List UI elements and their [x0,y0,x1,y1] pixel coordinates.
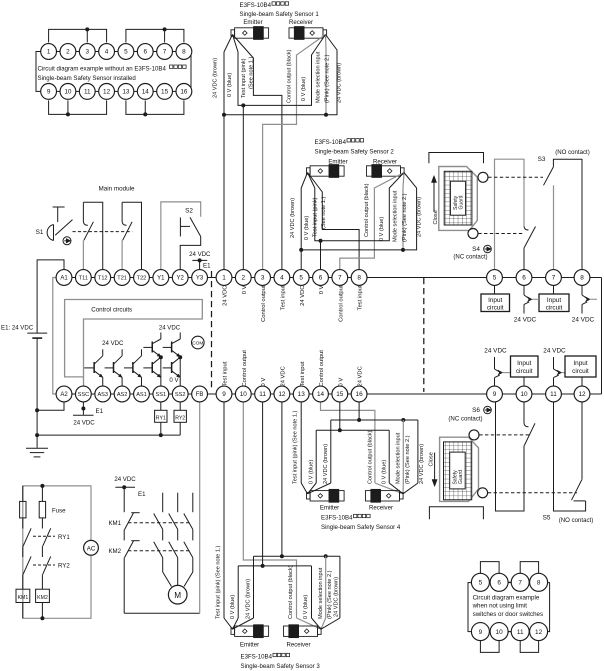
svg-text:A2: A2 [60,392,68,398]
terminal 7 (sensor block top) [332,270,348,286]
svg-text:(NC contact): (NC contact) [453,254,487,261]
terminal 5 (sensor block top) [293,270,309,286]
svg-text:Test input (pink) (See note 1.: Test input (pink) (See note 1.) [216,545,222,619]
svg-text:Control circuits: Control circuits [91,307,132,314]
svg-text:(Pink) (See note 2.): (Pink) (See note 2.) [402,193,408,242]
svg-text:KM2: KM2 [108,548,121,555]
switch S1: emergency stop button [36,207,73,241]
svg-text:10: 10 [240,391,248,398]
svg-text:circuit: circuit [487,305,504,312]
safety guard 2 hatched frame [444,442,472,500]
terminal 12 (sensor block bottom) [274,386,290,402]
svg-text:24 VDC (brown): 24 VDC (brown) [213,58,219,98]
wire: sensor1 emitter test-input(pink) to terminal 4 [233,35,282,270]
svg-text:Control output (black): Control output (black) [288,565,294,619]
svg-text:12: 12 [278,391,286,398]
svg-text:5: 5 [299,275,303,282]
svg-text:E1: E1 [138,491,146,498]
sensor S3b: single-beam safety sensor 3 receiver [284,625,322,638]
label: sensor1 Emitter [243,19,262,26]
svg-text:Single-beam Safety Sensor 2: Single-beam Safety Sensor 2 [315,149,395,156]
svg-text:Mode selection input: Mode selection input [393,190,399,242]
wire: sensor1 receiver 0V(blue) joins terminal 2 line [241,35,325,270]
terminal 1 (sensor block top) [216,270,232,286]
contact KM1 (monitor, NC) [124,487,139,529]
svg-text:8: 8 [580,275,584,282]
svg-text:Control output (black): Control output (black) [287,49,293,103]
svg-text:Mode selection input: Mode selection input [318,567,324,619]
arrow: guard1 Close direction [431,176,439,225]
svg-text:KM2: KM2 [37,595,48,601]
terminal 11 (example2 box) [511,623,529,641]
terminal T11 [75,270,91,286]
box: circuit diagram example without sensor installed [36,52,191,92]
svg-text:(Pink) (See note 2.): (Pink) (See note 2.) [405,435,411,484]
wire: sensor1 emitter 0V(blue) to terminal 2 [233,35,244,106]
svg-text:Test input: Test input [300,361,306,386]
wire: example box jumper 1-4 with tap from 3 [49,27,107,42]
svg-text:2: 2 [66,49,70,56]
terminal AS3 [95,386,111,402]
svg-text:12: 12 [535,629,543,636]
contactor power contacts phase U [154,493,172,587]
wire: sensor2 emitter test-input(pink) to terminal 8 [308,173,360,270]
svg-text:AS1: AS1 [136,392,147,398]
wire: KM1 dashed gang line [128,522,190,524]
svg-text:0 V (blue): 0 V (blue) [379,217,385,241]
svg-text:24 VDC (brown): 24 VDC (brown) [290,198,296,238]
contact: S1 NC contact T21-T22 [122,202,141,269]
svg-text:AS2: AS2 [117,392,128,398]
contact: S1 NC contact T11-T12 [83,202,102,269]
svg-text:Emitter: Emitter [240,642,259,649]
wire: sensor2 emitter 24VDC(brown) to terminal 5 [299,173,307,270]
label: KM1 [108,520,121,527]
svg-text:AC: AC [87,545,96,552]
terminal 5 (example box) [118,44,134,60]
svg-text:T22: T22 [137,276,147,282]
terminal Y2 [172,270,188,286]
sensor S4b: single-beam safety sensor 4 receiver [366,489,404,502]
wire: gray link A1 to A2 [53,278,58,395]
terminal 8 (example2 box) [530,573,548,591]
svg-text:1: 1 [47,49,51,56]
label: sensor4 wire labels [293,410,426,484]
svg-text:0 V: 0 V [338,378,344,387]
svg-text:6: 6 [497,580,501,587]
svg-text:0 V: 0 V [319,285,325,294]
label: RY2 contact row [33,563,70,570]
svg-text:13: 13 [122,89,130,96]
terminal 16 (example box) [176,84,192,100]
safety guard 1 door outline [439,167,478,231]
svg-text:SS2: SS2 [175,392,186,398]
power tap: E1 24VDC at SSC [73,402,104,427]
wire: sensor2 receiver control-output(black) to terminal 7 [340,173,404,270]
svg-text:24 VDC: 24 VDC [73,420,95,427]
svg-text:Test input (pink): Test input (pink) [313,197,319,237]
svg-text:8: 8 [537,580,541,587]
node: coil circuit bottom junction [40,616,44,620]
svg-text:10: 10 [520,391,528,398]
contact S3: NO door switch contact [544,167,554,270]
label: RY1 contact row [33,534,70,541]
label: 24 VDC above safety output transistors SS [159,325,181,332]
label: terminal 9-16 function labels (rotated) [223,350,364,387]
svg-text:S2: S2 [185,208,193,215]
wire: sensor2 receiver 0V(blue) joins terminal 6 line [319,173,405,270]
svg-text:Receiver: Receiver [286,642,310,649]
svg-text:Single-beam Safety Sensor 3: Single-beam Safety Sensor 3 [241,663,321,670]
svg-text:Fuse: Fuse [52,507,66,514]
terminal SS1 [153,386,169,402]
label: sensor3 Emitter [240,642,259,649]
svg-text:24 VDC (brown): 24 VDC (brown) [417,197,423,237]
svg-text:Main module: Main module [98,186,135,193]
node: coil circuit top junction [40,484,44,488]
svg-text:0 V (blue): 0 V (blue) [301,77,307,101]
svg-text:Guard: Guard [458,470,464,484]
module boundary dashed line (left) [211,271,213,391]
svg-text:0 V (blue): 0 V (blue) [304,216,310,240]
wire: terminal 8 feed loop to S3 [553,159,582,269]
svg-text:RY1: RY1 [58,534,70,541]
terminal 15 (example box) [157,84,173,100]
label: sensor2 Receiver [373,159,397,166]
bracket below safety guard 2 [429,507,483,520]
svg-text:0 V: 0 V [261,378,267,387]
transistor: auxiliary output AS3 [84,349,103,386]
svg-text:5: 5 [479,580,483,587]
label: sensor1 Receiver [289,19,313,26]
svg-text:0 V (blue): 0 V (blue) [227,73,233,97]
svg-text:24 VDC (brown): 24 VDC (brown) [333,577,339,617]
svg-text:(NO contact): (NO contact) [559,517,594,524]
terminal 13 (example box) [118,84,134,100]
svg-text:A1: A1 [60,276,68,282]
svg-text:4: 4 [280,275,284,282]
terminal 6 (example box) [137,44,153,60]
svg-text:Test input: Test input [358,285,364,310]
wire: example box jumper 5-8 with tap from 7 [126,27,184,42]
wire: dashed mechanical link guard1 to S3 [488,176,543,178]
symbol: 24VDC source arrow at terminal 6 [514,285,539,323]
terminal SS2 [172,386,188,402]
svg-text:9: 9 [479,629,483,636]
sensor S2a: single-beam safety sensor 2 emitter [307,165,345,178]
svg-text:Emitter: Emitter [243,19,262,26]
svg-text:E3FS-10B4: E3FS-10B4 [321,515,353,522]
roller: guard1 upper interlock [478,172,488,182]
sensor S1b: single-beam safety sensor 1 receiver [289,27,327,40]
terminal 12 (example box) [99,84,115,100]
svg-text:11: 11 [84,89,91,96]
terminal 10 (input block bottom) [516,386,532,402]
svg-text:S6: S6 [472,407,480,414]
svg-text:(See note 1.): (See note 1.) [249,57,255,89]
terminal 13 (sensor block bottom) [293,386,309,402]
svg-text:13: 13 [298,391,306,398]
terminal 1 (example box) [41,44,57,60]
svg-text:E1: E1 [203,263,211,270]
wire: terminal 5 feed loop to S4 [495,159,525,269]
wire: sensor2 receiver mode-selection(pink) taps 24VDC bus [401,173,405,252]
svg-text:S5: S5 [543,515,551,522]
svg-text:24 VDC: 24 VDC [484,348,507,355]
source: AC supply [84,540,99,555]
svg-text:Single-beam Safety Sensor 1: Single-beam Safety Sensor 1 [240,11,320,18]
svg-text:S4: S4 [472,246,480,253]
svg-text:Test input: Test input [223,361,229,386]
svg-text:15: 15 [336,391,344,398]
svg-text:RY1: RY1 [156,415,166,421]
terminal 7 (example2 box) [511,573,529,591]
svg-text:1: 1 [222,275,226,282]
block: input circuit above terminal 12 [565,356,596,386]
svg-text:Input: Input [517,360,531,367]
label: 0 V near SS2 [169,377,179,384]
svg-text:E1: 24 VDC: E1: 24 VDC [1,324,34,331]
svg-text:7: 7 [518,580,522,587]
label: KM2 [108,548,121,555]
terminal 9 (example box) [41,84,57,100]
svg-text:16: 16 [356,391,364,398]
svg-text:Control output (black): Control output (black) [364,183,370,237]
wire: sensor3 test-input(pink) from terminal 9 [224,402,233,629]
wire: feedback loop FB to contactor circuit [124,402,200,613]
terminal AS2 [114,386,130,402]
relay coil RY2 [174,402,186,435]
terminal T21 [114,270,130,286]
terminal 8 (example box) [176,44,192,60]
terminal 9 (input block bottom) [487,386,503,402]
label: Fuse [52,507,66,514]
label: E3FS-10B4 Single-beam Safety Sensor 2 title [315,139,395,156]
wire: sensor3 control-output(black) from terminal 10 [243,402,321,629]
battery E1: 24 VDC supply [1,260,64,410]
contact KM2 (monitor, NC) [124,530,139,614]
svg-text:24 VDC (brown): 24 VDC (brown) [337,63,343,103]
svg-text:9: 9 [222,391,226,398]
svg-text:circuit: circuit [572,368,589,375]
power tap: 24 VDC E1 feed for contactor monitor [114,476,146,498]
terminal T12 [95,270,111,286]
svg-text:4: 4 [105,49,109,56]
svg-text:8: 8 [357,275,361,282]
svg-text:Guard: Guard [459,195,465,209]
svg-text:Input: Input [547,297,561,304]
terminal 10 (sensor block bottom) [235,386,251,402]
terminal A2 [56,386,72,402]
contact S6: NC door switch contact (lower) [496,402,536,511]
switch S2: test pushbutton between Y1 and Y2 [161,202,201,270]
svg-text:3: 3 [261,275,265,282]
wire: upper terminal row link bus [57,277,602,279]
terminal 11 (input block bottom) [546,386,562,402]
terminal Y3 [192,270,208,286]
svg-text:(NO contact): (NO contact) [555,149,590,156]
svg-text:24 VDC: 24 VDC [189,251,211,258]
wire: example box jumper 9-12 with tap from 10 [49,100,107,116]
svg-text:24 VDC: 24 VDC [514,316,537,323]
svg-text:Y3: Y3 [196,276,204,282]
svg-text:24 VDC: 24 VDC [358,366,364,386]
svg-text:14: 14 [142,89,150,96]
symbol: 24VDC source arrow at terminal 11 (right) [543,348,566,387]
wire: example2 jumper 11-12 [520,641,538,653]
terminal T22 [134,270,150,286]
transistor pair: safety output SS2 [163,333,183,387]
terminal 4 (example box) [99,44,115,60]
terminal 7 (input block top) [546,270,562,286]
svg-text:24 VDC (brown): 24 VDC (brown) [323,444,329,484]
label: sensor2 Emitter [328,159,347,166]
terminal 11 (sensor block bottom) [255,386,271,402]
terminal 2 (sensor block top) [235,270,251,286]
wire: KM2 dashed gang line [128,550,190,552]
fuse F2 / contacts RY1,RY2 / contactor coil KM2 branch [36,486,51,618]
wire: sensor4 0V(blue) split from terminal 15 [308,402,404,494]
svg-text:Single-beam Safety Sensor 4: Single-beam Safety Sensor 4 [321,524,401,531]
svg-text:COM: COM [192,341,203,347]
svg-text:Circuit diagram example: Circuit diagram example [473,595,540,602]
label: E3FS-10B4 Single-beam Safety Sensor 4 title [321,514,401,531]
svg-text:S1: S1 [36,229,44,236]
terminal 5 (input block top) [487,270,503,286]
svg-text:24 VDC (brown): 24 VDC (brown) [246,579,252,619]
svg-text:10: 10 [496,629,504,636]
sensor S3a: single-beam safety sensor 3 emitter [231,625,269,638]
svg-text:(See note 1.): (See note 1.) [321,197,327,229]
terminal FB [192,386,208,402]
svg-text:Mode selection input: Mode selection input [396,432,402,484]
terminal 15 (sensor block bottom) [332,386,348,402]
svg-text:6: 6 [319,275,323,282]
sensor S1a: single-beam safety sensor 1 emitter [231,27,269,40]
wire: dashed mechanical link guard2 to S5 [488,492,577,494]
sensor S4a: single-beam safety sensor 4 emitter [307,489,345,502]
svg-text:Mode selection input: Mode selection input [316,51,322,103]
terminal Y1 [153,270,169,286]
svg-text:(NC contact): (NC contact) [448,416,482,423]
wire: relay return to ground node [37,434,180,436]
label: sensor4 Emitter [320,505,339,512]
wire: sensor3 24VDC(brown) split from terminal 12 with mode tap [233,402,340,629]
terminal 9 (example2 box) [471,623,489,641]
svg-text:6: 6 [522,275,526,282]
svg-text:24 VDC: 24 VDC [114,476,136,483]
svg-text:Test input (pink): Test input (pink) [241,58,247,98]
svg-text:12: 12 [103,89,111,96]
contact S5: NO door switch contact (lower) [554,402,586,511]
svg-text:S3: S3 [538,156,546,163]
terminal 3 (sensor block top) [255,270,271,286]
terminal 14 (example box) [137,84,153,100]
svg-text:AS3: AS3 [97,392,108,398]
wire: lower terminal row link bus [57,393,602,395]
wire: A2 to battery negative node [35,402,64,448]
box: circuit diagram example when not using limit switches [468,583,550,632]
svg-text:Control output (black): Control output (black) [367,430,373,484]
wire: example2 jumper 7-8 [520,562,538,574]
block: Control circuits outline [65,300,203,377]
svg-text:0 V (blue): 0 V (blue) [230,595,236,619]
wire: dashed mechanical link guard1 to S4 [478,233,524,235]
label: S6 (NC contact) [448,406,491,422]
svg-text:T21: T21 [117,276,127,282]
svg-text:KM1: KM1 [108,520,121,527]
terminal 12 (example2 box) [530,623,548,641]
wire: sensor2 emitter 0V(blue) to terminal 6 [308,173,321,241]
svg-text:5: 5 [124,49,128,56]
contactor power contacts phase V [169,493,178,586]
terminal 7 (example box) [157,44,173,60]
block: input circuit under terminal 5 [481,285,510,311]
svg-text:14: 14 [317,391,325,398]
terminal 12 (input block bottom) [574,386,590,402]
svg-text:circuit: circuit [516,368,533,375]
terminal 6 (input block top) [516,270,532,286]
symbol: S1 reset direction indicator [63,237,71,245]
svg-text:Control output: Control output [242,350,248,387]
svg-text:3: 3 [85,49,89,56]
svg-text:24 VDC: 24 VDC [300,286,306,306]
svg-text:(Pink) (See note 2.): (Pink) (See note 2.) [327,570,333,619]
terminal AS1 [134,386,150,402]
relay coil RY1 [155,402,167,437]
wire: sensor1 receiver mode-selection(pink) taps 24VDC bus [324,35,328,117]
svg-text:RY2: RY2 [58,563,70,570]
terminal 8 (sensor block top) [351,270,367,286]
terminal 8 (input block top) [574,270,590,286]
svg-text:11: 11 [517,629,524,636]
terminal 10 (example2 box) [490,623,508,641]
svg-text:SSC: SSC [78,392,90,398]
svg-text:Test input (pink) (See note 1.: Test input (pink) (See note 1.) [293,410,299,484]
svg-text:Single-beam Safety Sensor inst: Single-beam Safety Sensor installed [38,75,136,82]
svg-text:E3FS-10B4: E3FS-10B4 [241,654,273,661]
terminal 14 (sensor block bottom) [313,386,329,402]
svg-text:Control output: Control output [338,285,344,322]
terminal 2 (example box) [60,44,76,60]
svg-text:FB: FB [196,392,204,398]
svg-text:Y2: Y2 [177,276,185,282]
svg-text:9: 9 [47,89,51,96]
wire: control block to SSC [83,377,85,386]
wire: example2 jumper 5-6 [480,562,499,574]
terminal SSC [75,386,91,402]
svg-text:0 V: 0 V [169,377,179,384]
svg-text:7: 7 [163,49,167,56]
label: E3FS-10B4 Single-beam Safety Sensor 3 title [241,653,321,670]
svg-text:24 VDC: 24 VDC [223,286,229,306]
label: sensor3 Receiver [286,642,310,649]
svg-text:T11: T11 [79,276,88,282]
svg-text:0 V: 0 V [242,285,248,294]
label: sensor4 Receiver [369,505,393,512]
wire: sensor1 receiver control-output(black) to terminal 3 [263,35,326,270]
svg-text:Circuit diagram example withou: Circuit diagram example without an E3FS-… [38,66,167,73]
transistor: auxiliary output AS1 [124,349,141,386]
power tap: 24 VDC E1 feed at Y3 [189,251,211,269]
transistor pair: safety output SS1 [143,333,163,387]
wire: far-right vertical joining upper 8 to lower 12 [601,278,603,395]
terminal 6 (sensor block top) [313,270,329,286]
symbol: 24VDC source arrow at terminal 9 (right) [484,348,510,387]
svg-text:RY2: RY2 [175,415,185,421]
circuit loop: AC contactor coil circuit outline [23,486,91,618]
label: S5 (NO contact) [543,515,594,525]
